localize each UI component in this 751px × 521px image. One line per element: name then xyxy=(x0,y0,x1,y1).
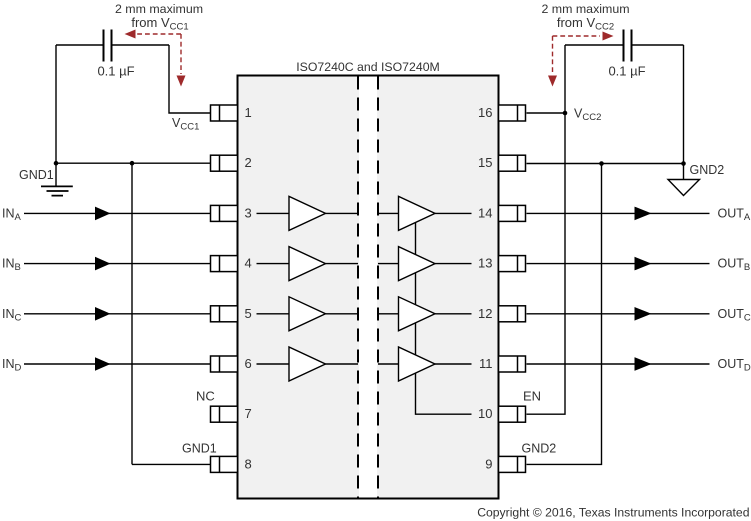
svg-text:0.1 µF: 0.1 µF xyxy=(97,63,134,78)
svg-text:GND2: GND2 xyxy=(690,163,725,177)
svg-text:2 mm maximum: 2 mm maximum xyxy=(541,2,629,16)
svg-text:8: 8 xyxy=(245,456,252,471)
svg-text:15: 15 xyxy=(478,155,492,170)
svg-text:12: 12 xyxy=(478,306,492,321)
svg-text:2 mm maximum: 2 mm maximum xyxy=(115,2,203,16)
svg-text:2: 2 xyxy=(245,155,252,170)
svg-text:GND2: GND2 xyxy=(522,442,557,456)
svg-text:14: 14 xyxy=(478,205,492,220)
svg-text:NC: NC xyxy=(196,389,215,404)
svg-text:10: 10 xyxy=(478,406,492,421)
svg-text:4: 4 xyxy=(245,256,252,271)
svg-text:0.1 µF: 0.1 µF xyxy=(608,63,645,78)
svg-text:13: 13 xyxy=(478,256,492,271)
svg-text:9: 9 xyxy=(485,456,492,471)
svg-text:1: 1 xyxy=(245,105,252,120)
svg-text:7: 7 xyxy=(245,406,252,421)
svg-text:16: 16 xyxy=(478,105,492,120)
svg-text:5: 5 xyxy=(245,306,252,321)
svg-text:GND1: GND1 xyxy=(182,442,217,456)
svg-text:ISO7240C and ISO7240M: ISO7240C and ISO7240M xyxy=(296,60,440,74)
svg-text:EN: EN xyxy=(523,389,541,404)
svg-text:11: 11 xyxy=(479,356,493,371)
svg-text:3: 3 xyxy=(245,205,252,220)
svg-text:Copyright © 2016, Texas Instru: Copyright © 2016, Texas Instruments Inco… xyxy=(477,506,749,520)
svg-text:6: 6 xyxy=(245,356,252,371)
svg-text:GND1: GND1 xyxy=(19,168,54,182)
